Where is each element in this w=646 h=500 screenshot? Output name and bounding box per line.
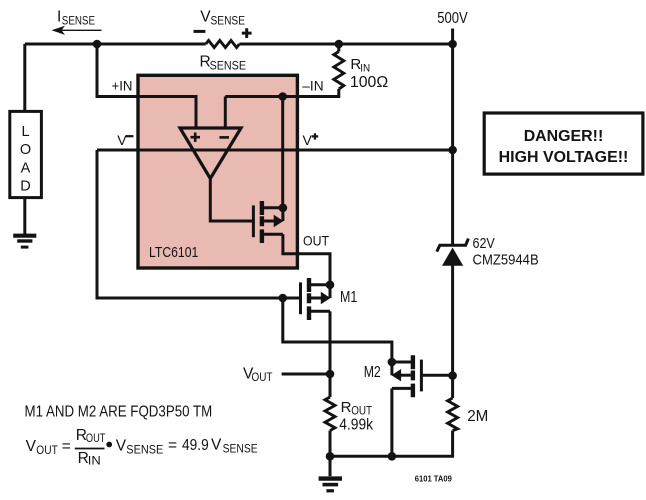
svg-text:4.99k: 4.99k <box>339 416 373 433</box>
wire 500V vertical <box>330 29 453 457</box>
svg-text:2M: 2M <box>467 408 488 425</box>
svg-text:SENSE: SENSE <box>62 13 95 27</box>
svg-text:IN: IN <box>360 63 370 75</box>
svg-text:SENSE: SENSE <box>223 441 258 455</box>
node M1 drain <box>326 281 335 290</box>
wire OUT from internal source <box>283 234 330 285</box>
svg-text:D: D <box>20 178 30 194</box>
wire internal drain tie to -IN <box>281 97 284 208</box>
svg-text:OUT: OUT <box>303 233 329 249</box>
svg-text:6101 TA09: 6101 TA09 <box>415 473 452 483</box>
node internal mosfet drain <box>279 204 288 213</box>
node top-left junction <box>93 40 102 49</box>
svg-text:62V: 62V <box>473 235 495 252</box>
node -IN internal junction <box>278 92 287 101</box>
svg-text:R: R <box>341 399 352 416</box>
transistor M1 <box>301 278 331 320</box>
label VSENSE minus <box>194 30 206 33</box>
svg-text:IN: IN <box>88 454 101 468</box>
resistor ROUT <box>325 397 335 431</box>
svg-text:OUT: OUT <box>252 370 274 384</box>
svg-text:DANGER!!: DANGER!! <box>524 128 604 145</box>
transistor M2 (mirrored) <box>391 355 421 397</box>
op-amp minus input mark <box>220 136 230 139</box>
svg-text:L: L <box>21 124 29 140</box>
op-amp A1 <box>180 128 241 179</box>
wire load to ground <box>23 198 26 235</box>
label VSENSE plus <box>242 28 252 38</box>
svg-text:V: V <box>211 437 222 454</box>
wire op-amp output to internal gate <box>210 178 253 221</box>
zener diode 62V bar <box>437 239 469 252</box>
formula fraction bar <box>75 448 105 450</box>
svg-text:OUT: OUT <box>351 404 372 418</box>
node M2 source ground <box>388 452 397 461</box>
op-amp plus input mark <box>191 133 201 142</box>
amplifier block LTC6101 body <box>138 75 297 268</box>
svg-text:M2: M2 <box>364 364 381 381</box>
node VOUT <box>326 370 335 379</box>
wire M1 source down through ROUT to ground <box>329 311 332 456</box>
svg-text:49.9: 49.9 <box>182 437 209 454</box>
svg-text:V: V <box>116 438 127 455</box>
danger box <box>484 113 643 174</box>
wire top rail with RSENSE gap <box>25 43 453 46</box>
svg-text:–IN: –IN <box>302 78 323 94</box>
wire V- V+ rail <box>97 149 453 152</box>
wire left drop to load <box>23 44 26 111</box>
resistor 2M <box>448 398 458 431</box>
svg-text:M1 AND M2 ARE FQD3P50 TM: M1 AND M2 ARE FQD3P50 TM <box>25 404 213 421</box>
wire VOUT lead <box>282 373 330 376</box>
wire RIN top lead <box>337 44 340 52</box>
svg-text:+IN: +IN <box>112 78 133 94</box>
svg-text:V: V <box>26 438 37 455</box>
svg-text:HIGH VOLTAGE!!: HIGH VOLTAGE!! <box>499 149 629 166</box>
svg-text:O: O <box>20 142 31 158</box>
transistor internal mosfet <box>253 201 283 243</box>
ground load <box>13 234 36 238</box>
svg-text:SENSE: SENSE <box>211 13 246 27</box>
formula multiply dot <box>106 442 112 448</box>
svg-text:=: = <box>62 438 71 455</box>
wire +IN from top junction <box>97 44 196 128</box>
resistor RSENSE <box>206 41 240 48</box>
ground main <box>329 456 332 476</box>
node ground rail left <box>326 452 335 461</box>
svg-text:A: A <box>21 160 31 176</box>
svg-text:M1: M1 <box>340 289 357 306</box>
wire V- drop to M1 gate <box>97 150 301 298</box>
node V+ junction <box>448 146 457 155</box>
wire -IN inside to RIN <box>225 89 338 128</box>
svg-text:SENSE: SENSE <box>210 58 246 72</box>
node M2 gate / zener <box>448 371 457 380</box>
node M1 gate junction <box>279 294 288 303</box>
node M2 drain <box>388 358 397 367</box>
wire M2 gate lead to zener node <box>423 374 453 377</box>
wire M2 source to ground rail <box>390 388 393 456</box>
load text <box>20 124 31 194</box>
zener diode triangle <box>442 248 463 266</box>
node 500V rail top <box>448 40 457 49</box>
svg-text:OUT: OUT <box>36 443 58 457</box>
svg-text:500V: 500V <box>437 10 468 27</box>
svg-text:V: V <box>303 132 313 148</box>
node RIN top <box>335 40 344 49</box>
svg-text:CMZ5944B: CMZ5944B <box>473 252 539 269</box>
svg-text:SENSE: SENSE <box>126 442 163 456</box>
svg-text:LTC6101: LTC6101 <box>149 244 198 261</box>
arrow ISENSE <box>56 29 102 31</box>
resistor RIN <box>334 52 344 90</box>
svg-text:OUT: OUT <box>86 431 106 445</box>
load box <box>10 111 42 197</box>
svg-text:=: = <box>168 437 177 454</box>
svg-text:100Ω: 100Ω <box>350 74 388 91</box>
svg-text:V: V <box>117 132 127 148</box>
wire M1 gate node down to M2 drain <box>283 298 392 362</box>
svg-text:I: I <box>57 9 61 26</box>
